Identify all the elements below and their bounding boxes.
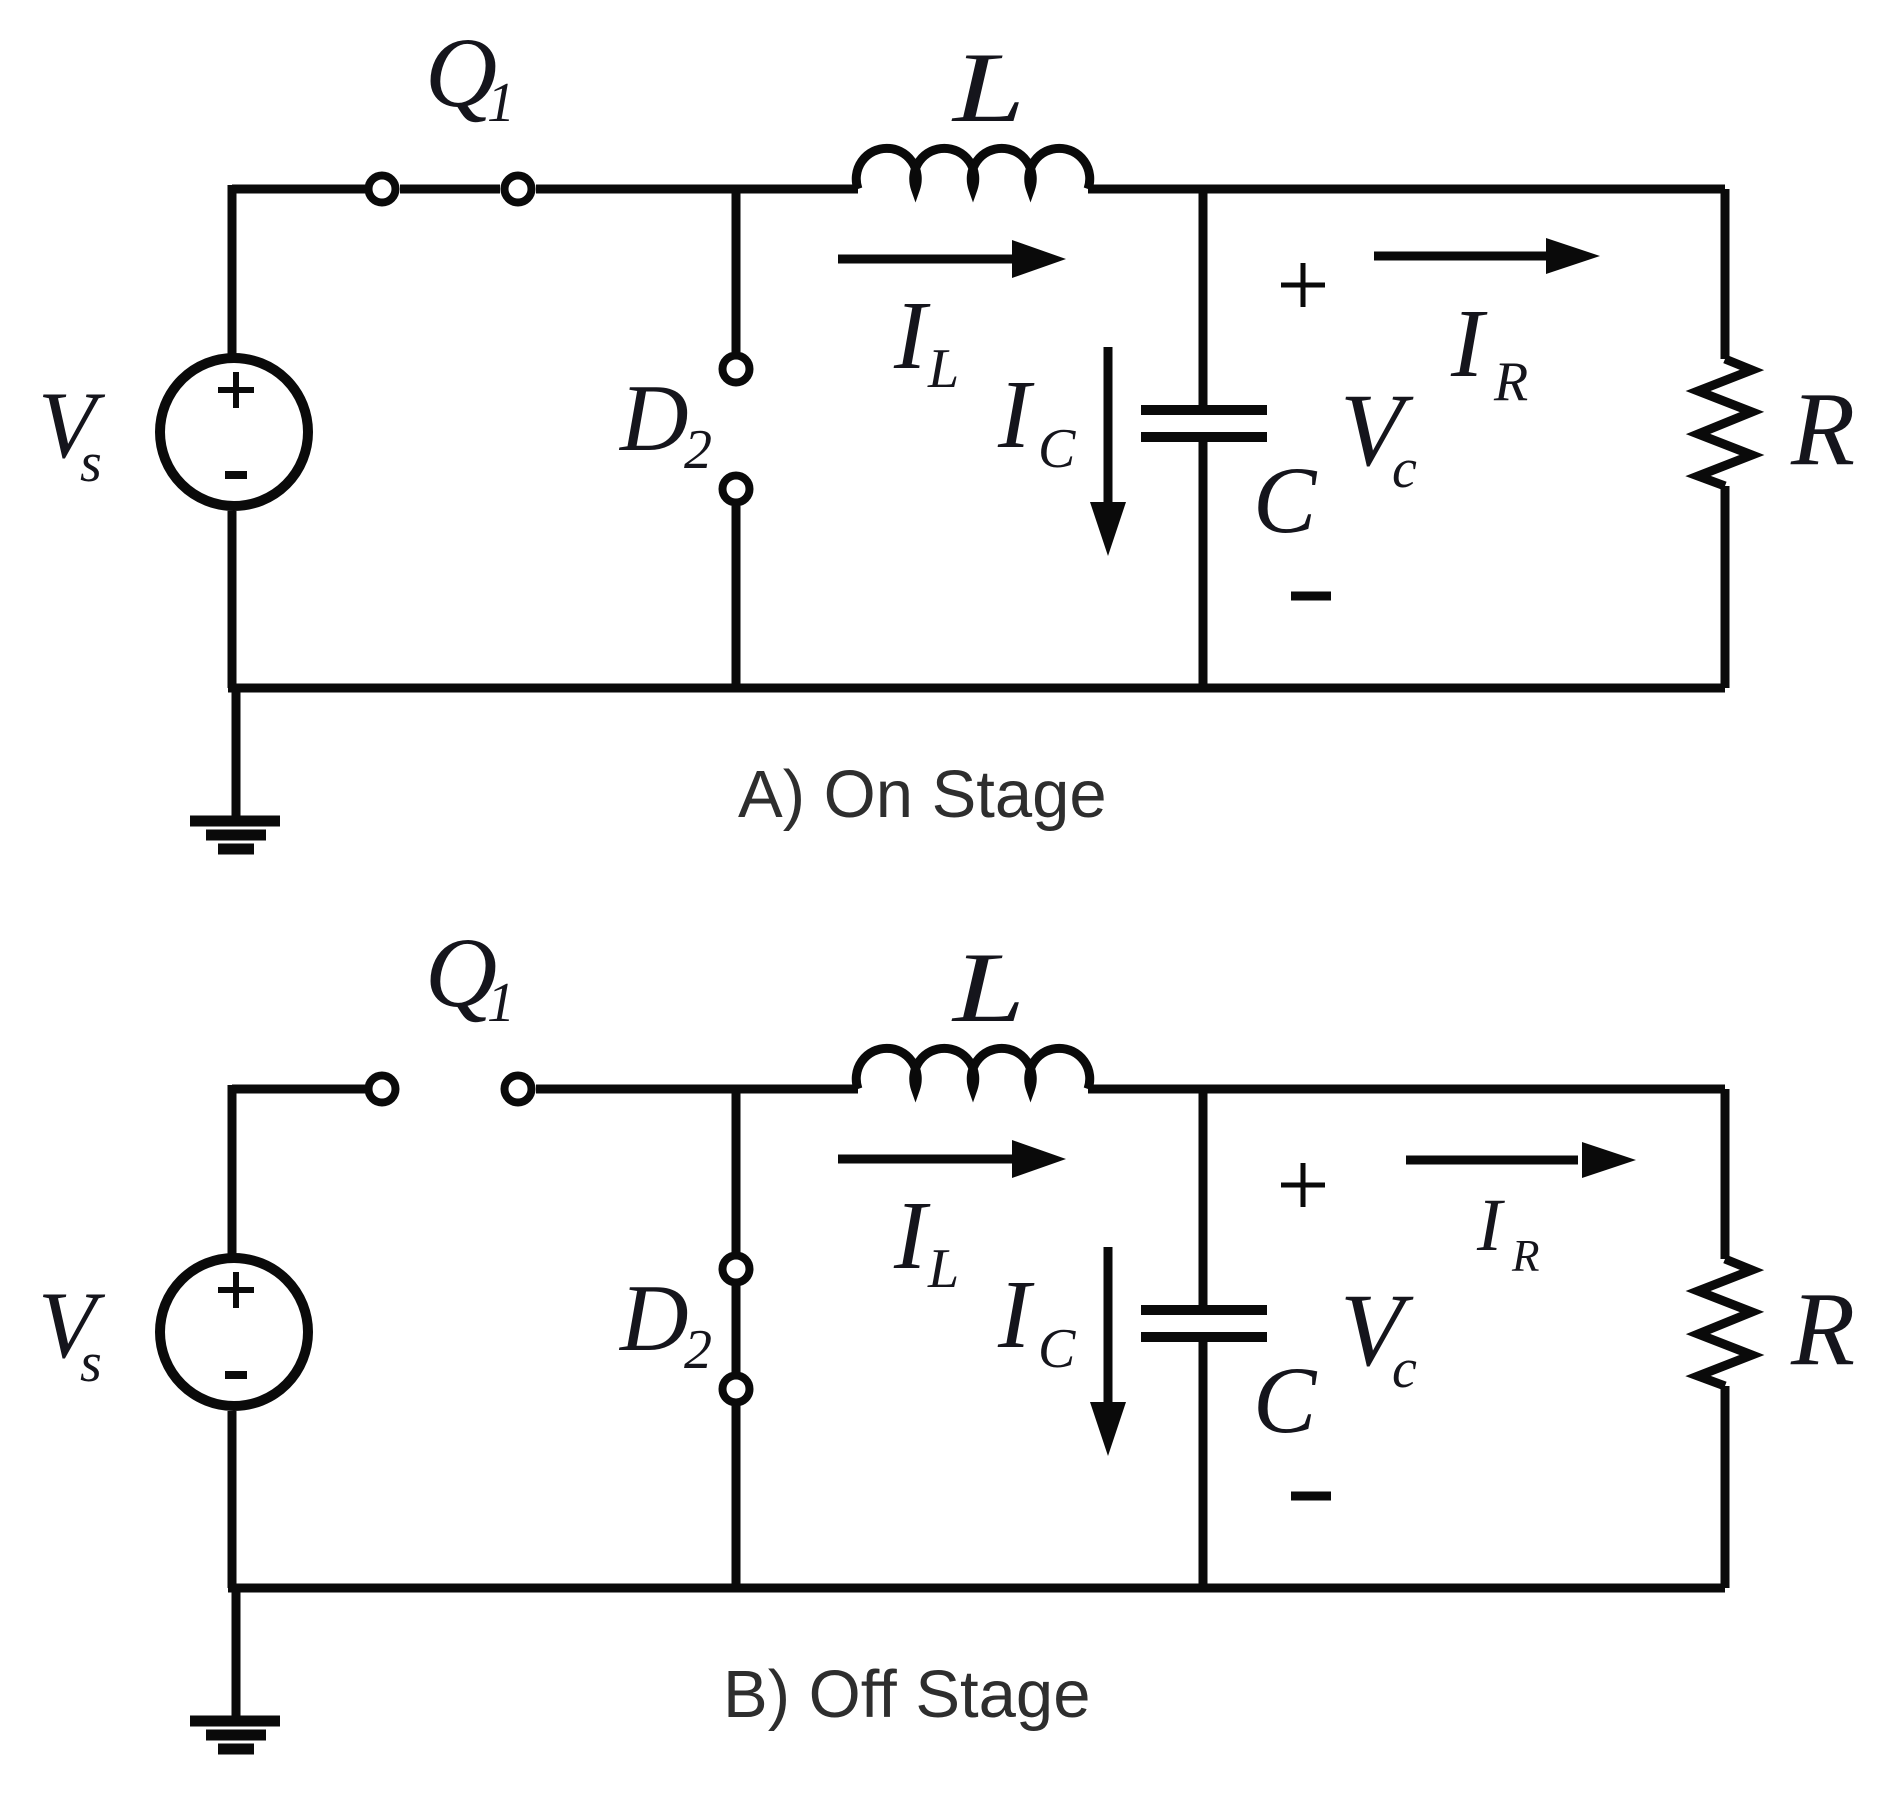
svg-text:L: L (927, 1238, 959, 1300)
svg-text:c: c (1392, 438, 1417, 500)
svg-text:B) Off Stage: B) Off Stage (723, 1657, 1090, 1732)
svg-text:I: I (1450, 290, 1488, 398)
svg-text:R: R (1790, 1270, 1855, 1387)
svg-text:I: I (997, 361, 1035, 469)
svg-text:I: I (1476, 1184, 1505, 1267)
svg-text:C: C (1038, 418, 1076, 480)
svg-text:C: C (1253, 1347, 1318, 1453)
svg-text:1: 1 (487, 972, 515, 1034)
svg-text:c: c (1392, 1338, 1417, 1400)
svg-text:C: C (1038, 1318, 1076, 1380)
svg-text:I: I (893, 282, 931, 390)
svg-text:2: 2 (684, 419, 712, 481)
svg-text:C: C (1253, 447, 1318, 553)
svg-text:s: s (80, 1332, 102, 1394)
svg-text:L: L (950, 32, 1025, 143)
svg-text:L: L (950, 932, 1025, 1043)
svg-text:R: R (1511, 1231, 1540, 1281)
svg-text:I: I (997, 1261, 1035, 1369)
svg-text:R: R (1790, 370, 1855, 487)
svg-text:s: s (80, 432, 102, 494)
svg-text:D: D (618, 365, 689, 471)
svg-text:A) On Stage: A) On Stage (738, 757, 1107, 832)
svg-text:2: 2 (684, 1319, 712, 1381)
svg-text:1: 1 (487, 72, 515, 134)
svg-text:R: R (1493, 351, 1528, 413)
svg-text:I: I (893, 1182, 931, 1290)
svg-text:D: D (618, 1265, 689, 1371)
svg-text:L: L (927, 338, 959, 400)
